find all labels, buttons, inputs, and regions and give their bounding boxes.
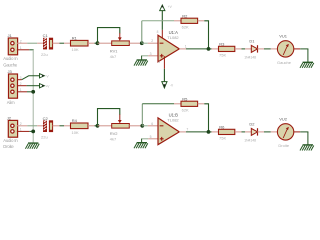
wire J2 pin1 to ground rail xyxy=(17,130,34,132)
node after R1 xyxy=(96,41,100,45)
svg-text:62K: 62K xyxy=(182,25,189,30)
node inverting input U1A xyxy=(140,41,144,45)
wire ground rail vertical xyxy=(32,50,34,143)
wire R2 to output node xyxy=(204,21,208,49)
svg-text:1: 1 xyxy=(20,88,22,92)
svg-text:RV2: RV2 xyxy=(110,131,118,136)
ground right of VU2 xyxy=(300,145,314,151)
wire U1B pin5 to ground xyxy=(141,139,158,143)
resistor R1 xyxy=(71,36,89,53)
svg-text:2: 2 xyxy=(151,39,153,43)
supply +V arrow (J3) xyxy=(40,84,51,89)
node J3 ground rail xyxy=(31,90,35,94)
svg-text:22u: 22u xyxy=(41,135,48,140)
svg-text:Droite: Droite xyxy=(278,143,289,148)
node J2 ground rail xyxy=(31,130,35,134)
meter VU2 xyxy=(277,117,293,148)
wire J2 pin2 to C2 xyxy=(17,125,44,127)
wire J3 pin2 to +V arrow xyxy=(18,85,40,87)
wire feedback up U1B xyxy=(141,104,143,126)
svg-text:Alim: Alim xyxy=(7,100,15,105)
potentiometer RV2 xyxy=(98,124,143,142)
svg-text:Gauche: Gauche xyxy=(3,62,18,67)
diode D2 xyxy=(244,121,264,142)
wire feedback horizontal xyxy=(142,20,174,22)
ground under J2 xyxy=(25,143,39,149)
svg-text:6: 6 xyxy=(151,122,153,126)
svg-text:7: 7 xyxy=(186,128,188,132)
wire D2 to VU2 xyxy=(264,131,277,133)
op-amp U1B xyxy=(150,113,189,145)
svg-text:TL082: TL082 xyxy=(167,118,179,123)
wire R1 to node xyxy=(88,42,98,44)
svg-text:+V: +V xyxy=(45,84,50,88)
wire VU2 to ground xyxy=(294,132,309,145)
node output U1A xyxy=(207,47,211,51)
wire VU1 to ground xyxy=(294,49,309,62)
svg-text:+V: +V xyxy=(168,5,173,9)
svg-text:VU1: VU1 xyxy=(279,34,288,39)
connector J3 xyxy=(7,69,22,105)
svg-text:R2: R2 xyxy=(182,13,188,18)
svg-text:Gauche: Gauche xyxy=(277,60,292,65)
wire U1A output xyxy=(179,48,208,50)
wire +V to U1A xyxy=(161,11,163,30)
svg-text:1N4148: 1N4148 xyxy=(244,139,256,143)
potentiometer RV1 xyxy=(98,41,142,59)
wire J3 pin1 to ground rail xyxy=(18,91,34,93)
svg-text:Droite: Droite xyxy=(3,144,14,149)
connector J1 xyxy=(3,33,22,67)
svg-text:1N4148: 1N4148 xyxy=(244,56,256,60)
svg-text:R5: R5 xyxy=(182,96,188,101)
supply -V arrow (J3) xyxy=(40,74,50,79)
svg-text:4k7: 4k7 xyxy=(110,54,117,59)
svg-text:75K: 75K xyxy=(219,53,226,58)
svg-text:J3: J3 xyxy=(8,69,13,74)
wire C1 to R1 xyxy=(53,42,71,44)
potentiometer RV1 wiper arrow xyxy=(118,33,122,41)
resistor R2 xyxy=(174,13,204,29)
svg-text:Audio In: Audio In xyxy=(3,138,18,143)
wire D1 to VU1 xyxy=(264,48,277,50)
svg-text:5: 5 xyxy=(150,135,152,139)
resistor R5 xyxy=(174,96,204,112)
wire R4 to node xyxy=(88,125,98,127)
capacitor C2 xyxy=(41,116,53,140)
U1A power pin V+ xyxy=(161,30,163,39)
wire RV2 wiper bridge xyxy=(98,109,120,126)
svg-text:VU2: VU2 xyxy=(279,117,288,122)
svg-text:8: 8 xyxy=(157,30,159,34)
svg-text:TL082: TL082 xyxy=(167,35,179,40)
ground right of VU1 xyxy=(300,62,314,68)
resistor R3 xyxy=(209,42,246,58)
svg-text:RV1: RV1 xyxy=(110,49,118,54)
node after R4 xyxy=(96,124,100,128)
wire U1B output xyxy=(179,131,208,133)
U1A power pin V- xyxy=(163,56,165,69)
svg-text:-V: -V xyxy=(45,74,49,78)
svg-text:D1: D1 xyxy=(249,38,255,43)
meter VU1 xyxy=(277,34,294,65)
diode D1 xyxy=(244,38,264,59)
ground under U1A xyxy=(134,60,148,66)
svg-text:R4: R4 xyxy=(72,118,78,123)
resistor R4 xyxy=(71,118,89,135)
op-amp U1A xyxy=(150,30,187,62)
supply -V symbol xyxy=(162,82,174,88)
svg-text:10K: 10K xyxy=(72,130,79,135)
svg-text:4k7: 4k7 xyxy=(110,137,117,142)
wire RV1 wiper bridge xyxy=(98,28,120,44)
capacitor C1 xyxy=(41,33,53,57)
ground under U1B xyxy=(134,143,148,149)
wire feedback up xyxy=(141,21,143,43)
wire J1 pin1 to ground rail xyxy=(17,49,34,51)
svg-text:D2: D2 xyxy=(249,121,255,126)
connector J2 xyxy=(3,116,22,150)
svg-text:1: 1 xyxy=(185,45,187,49)
svg-text:C2: C2 xyxy=(43,116,49,121)
wire R5 to output node xyxy=(204,104,208,132)
svg-text:4: 4 xyxy=(158,60,160,64)
node output U1B xyxy=(207,130,211,134)
svg-text:62K: 62K xyxy=(182,108,189,113)
svg-text:R1: R1 xyxy=(72,36,78,41)
wire J1 pin2 to C1 xyxy=(17,42,44,44)
wire node to U1A pin2 xyxy=(142,42,158,44)
svg-text:C1: C1 xyxy=(43,33,49,38)
potentiometer RV2 wiper arrow xyxy=(118,114,122,123)
supply +V symbol xyxy=(160,5,173,11)
wire node to U1B pin6 xyxy=(142,125,158,127)
node inverting input U1B xyxy=(140,124,144,128)
svg-text:3: 3 xyxy=(150,52,152,56)
svg-text:R6: R6 xyxy=(219,125,225,130)
svg-text:75K: 75K xyxy=(219,136,226,141)
wire U1A V- to -V arrow xyxy=(163,69,165,82)
resistor R6 xyxy=(209,125,246,141)
wire C2 to R4 xyxy=(53,125,71,127)
wire feedback horizontal U1B xyxy=(142,103,174,105)
wire J3 pin3 to -V arrow xyxy=(18,76,40,80)
svg-text:22u: 22u xyxy=(41,52,48,57)
svg-text:-V: -V xyxy=(170,84,174,88)
svg-text:Audio In: Audio In xyxy=(3,56,18,61)
wire U1A pin3 to ground xyxy=(141,56,158,60)
svg-text:R3: R3 xyxy=(219,42,225,47)
svg-text:10K: 10K xyxy=(72,47,79,52)
